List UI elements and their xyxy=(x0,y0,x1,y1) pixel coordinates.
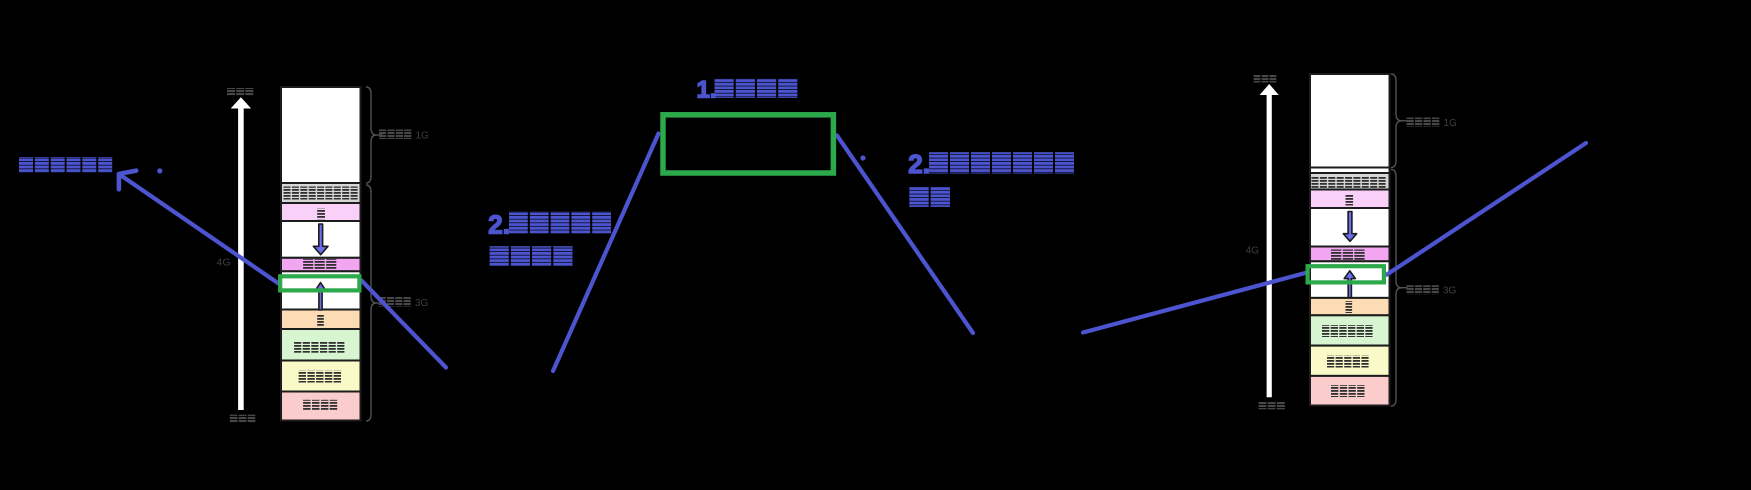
svg-text:2.: 2. xyxy=(488,210,510,240)
svg-text:1G: 1G xyxy=(1444,118,1458,129)
svg-text:2.: 2. xyxy=(908,149,930,179)
svg-text:4G: 4G xyxy=(217,256,231,268)
svg-text:4G: 4G xyxy=(1246,246,1260,257)
svg-text:1G: 1G xyxy=(416,131,430,142)
svg-text:3G: 3G xyxy=(1443,286,1457,297)
svg-text:3G: 3G xyxy=(415,298,429,309)
svg-text:1.: 1. xyxy=(697,77,717,104)
